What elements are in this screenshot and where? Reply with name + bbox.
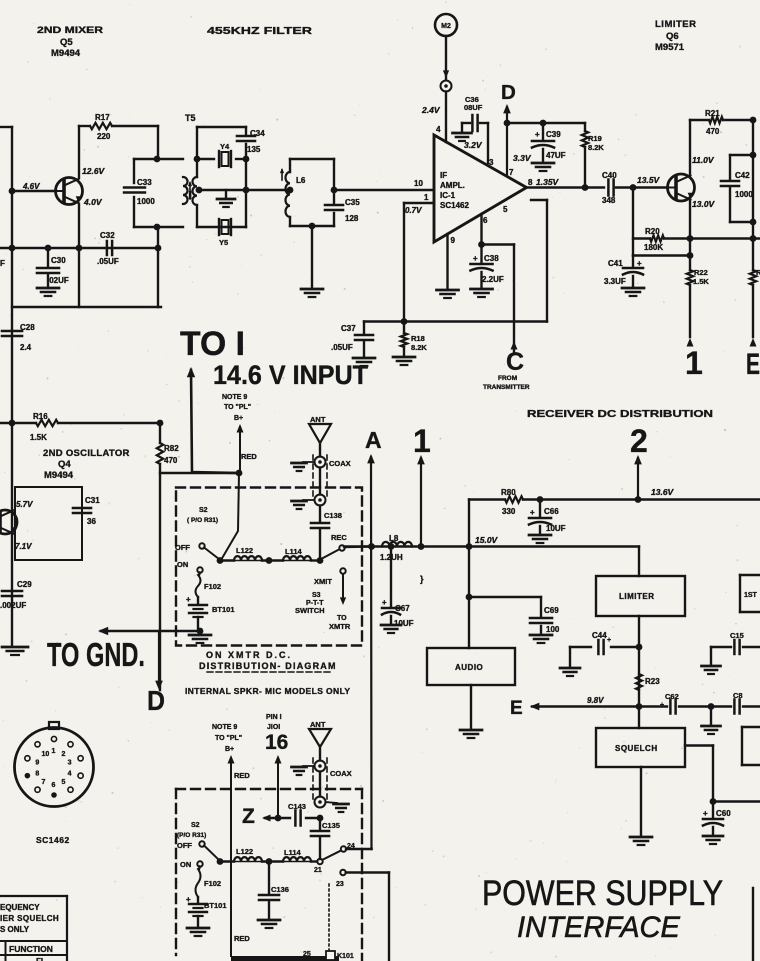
svg-text:ON: ON xyxy=(177,560,188,569)
table row S ONLY xyxy=(0,925,30,934)
svg-text:L8: L8 xyxy=(389,534,399,543)
svg-text:+: + xyxy=(607,637,611,644)
svg-text:F102: F102 xyxy=(204,879,221,888)
meter M2 xyxy=(435,14,457,36)
switch S2-2 ON contact xyxy=(197,861,202,866)
node R18 top xyxy=(401,318,408,325)
wire L114 to 21 xyxy=(311,860,317,862)
svg-text:AMPL.: AMPL. xyxy=(440,181,465,190)
svg-text:C8: C8 xyxy=(733,691,743,700)
ground filter mid xyxy=(217,190,235,207)
node R16 x12 xyxy=(9,420,16,427)
switch S3 xyxy=(340,568,346,605)
inductor L6 coil xyxy=(286,172,306,217)
wire x469 down xyxy=(468,500,470,649)
svg-text:L122: L122 xyxy=(236,847,253,856)
svg-text:R23: R23 xyxy=(645,677,660,686)
svg-text:ANT: ANT xyxy=(310,415,326,424)
svg-text:C135: C135 xyxy=(322,821,340,830)
jack circle xyxy=(441,81,452,92)
wire y321 bottom xyxy=(364,320,547,322)
svg-text:T5: T5 xyxy=(185,113,196,123)
svg-text:C69: C69 xyxy=(544,606,559,615)
svg-text:JIOI: JIOI xyxy=(267,724,280,731)
pin 10 xyxy=(414,179,423,188)
svg-text:2: 2 xyxy=(61,751,65,758)
audio box xyxy=(427,648,515,685)
resistor R82 xyxy=(157,443,179,465)
label NOTE 9 2 xyxy=(212,724,242,753)
svg-text:RECEIVER DC DISTRIBUTION: RECEIVER DC DISTRIBUTION xyxy=(527,408,713,420)
svg-text:13.5V: 13.5V xyxy=(637,175,661,185)
inductor L114 2 xyxy=(262,848,311,862)
node y190 left xyxy=(196,187,203,194)
label 9.8V xyxy=(587,696,604,705)
inductor L8 xyxy=(380,534,412,562)
node emitter C41 xyxy=(687,252,694,259)
arrow C up xyxy=(511,341,518,350)
node ant bottom 1 xyxy=(317,557,324,564)
ground BT101 2 xyxy=(187,928,209,936)
capacitor C30 xyxy=(37,248,69,296)
pin 4 xyxy=(436,125,441,134)
label S2 1 xyxy=(187,507,218,524)
label 3.2V xyxy=(464,140,483,150)
node C44 xyxy=(636,644,643,651)
capacitor C143 xyxy=(288,802,306,826)
svg-text:Z: Z xyxy=(242,805,255,828)
dashed box 2 xyxy=(176,789,362,961)
pin 1 xyxy=(424,193,429,202)
wire left-edge input y127 xyxy=(0,126,12,128)
inductor L122 1 xyxy=(234,546,262,561)
capacitor C15 xyxy=(730,631,744,654)
resistor R80 labels xyxy=(501,488,516,516)
inductor L122 2 xyxy=(234,847,262,862)
wire R80 row xyxy=(469,496,760,502)
node y248 x12 xyxy=(9,245,16,252)
label 0.7V xyxy=(405,206,422,215)
squiggle mark xyxy=(420,574,424,584)
table row CARRIER SQUELCH xyxy=(0,914,59,923)
fuse F102 1 xyxy=(196,573,222,598)
wire y123 to R19 xyxy=(507,122,585,124)
label S3 P-T-T SWITCH xyxy=(295,592,325,615)
wire right bus x753 xyxy=(752,120,754,270)
svg-text:9.8V: 9.8V xyxy=(587,696,604,705)
svg-text:SC1462: SC1462 xyxy=(36,835,70,845)
svg-text:S2: S2 xyxy=(191,822,200,829)
svg-text:BT101: BT101 xyxy=(204,901,227,910)
node pin16 z xyxy=(275,815,282,822)
wire y190 row xyxy=(197,189,246,191)
feedback box right xyxy=(546,200,548,322)
relay K101 contact square xyxy=(326,951,335,960)
capacitor C135 xyxy=(311,818,340,859)
handwriting TO GND. xyxy=(47,636,145,673)
label K101 xyxy=(337,953,354,960)
label ON XMTR DC xyxy=(199,650,337,672)
node wiper 2 xyxy=(217,858,224,865)
wire C44 row xyxy=(570,646,639,648)
wire switch row 2 xyxy=(220,860,234,862)
svg-text:S3: S3 xyxy=(312,592,321,599)
dashed box 1 xyxy=(176,488,362,646)
label 3.3V xyxy=(513,153,532,163)
wire to REC xyxy=(311,559,320,561)
label COAX 1 xyxy=(329,459,351,468)
table row FREQUENCY xyxy=(0,903,40,912)
svg-text:FROM: FROM xyxy=(498,375,517,382)
capacitor C62 xyxy=(660,692,679,714)
svg-text:( P/O R31): ( P/O R31) xyxy=(187,517,218,524)
capacitor C28 xyxy=(2,323,35,352)
svg-text:5: 5 xyxy=(61,779,65,786)
svg-text:C: C xyxy=(506,348,524,376)
capacitor C40 xyxy=(602,171,617,205)
op-amp U1 IF AMPL IC-1 SC1462 triangle xyxy=(434,135,527,242)
table divider 2 xyxy=(0,954,67,956)
label SC1462 xyxy=(36,835,70,845)
svg-text:C138: C138 xyxy=(324,511,342,520)
oscillator box xyxy=(15,487,82,560)
svg-text:2ND OSCILLATOR: 2ND OSCILLATOR xyxy=(43,448,130,459)
node y499 x638 xyxy=(635,496,642,503)
svg-text:Q6: Q6 xyxy=(666,31,679,42)
handwriting 1 dc xyxy=(413,423,431,459)
wire C69 row xyxy=(469,596,541,598)
label INTERNAL SPKR-MIC xyxy=(185,686,350,696)
svg-text:+: + xyxy=(637,259,642,268)
arrow Z xyxy=(262,815,320,822)
svg-text:R82: R82 xyxy=(164,444,179,453)
svg-text:C62: C62 xyxy=(665,692,679,701)
label RED 1 xyxy=(241,452,257,461)
capacitor C138 xyxy=(311,506,342,561)
node L6 in xyxy=(287,187,294,194)
ground squelch xyxy=(630,837,652,845)
svg-text:ON: ON xyxy=(180,860,191,869)
wire y473 branch xyxy=(160,472,239,474)
svg-text:DISTRIBUTION- DIAGRAM: DISTRIBUTION- DIAGRAM xyxy=(199,661,337,671)
contact 21 xyxy=(314,859,323,874)
svg-text:B+: B+ xyxy=(234,415,243,422)
wire C40 to Q6 xyxy=(616,186,668,188)
handwriting 16 xyxy=(265,731,288,754)
svg-text:1000: 1000 xyxy=(137,197,155,206)
wire x79 y248-307 xyxy=(78,248,80,307)
svg-text:IC-1: IC-1 xyxy=(440,191,456,200)
svg-text:C31: C31 xyxy=(85,496,100,505)
label 25 xyxy=(303,951,311,958)
node pin6 xyxy=(478,241,485,248)
svg-text:Y4: Y4 xyxy=(220,142,230,151)
svg-text:+: + xyxy=(660,702,664,709)
node filter y159 left xyxy=(194,156,201,163)
node y190 right xyxy=(243,187,250,194)
svg-text:XMIT: XMIT xyxy=(314,577,332,586)
arrowhead M2 wire xyxy=(443,70,449,78)
wire y248 bus xyxy=(0,247,158,249)
svg-text:TO "PL": TO "PL" xyxy=(215,735,242,742)
switch S2-2 OFF contact xyxy=(199,841,219,860)
wire C terminal xyxy=(513,245,515,353)
svg-text:SWITCH: SWITCH xyxy=(295,606,325,615)
arrow B+ 2 xyxy=(228,755,235,956)
svg-text:1: 1 xyxy=(413,423,431,459)
svg-text:+: + xyxy=(473,254,478,263)
svg-text:INTERNAL SPKR- MIC MODELS O: INTERNAL SPKR- MIC MODELS ONLY xyxy=(185,686,350,696)
svg-text:INTERFACE: INTERFACE xyxy=(517,911,681,944)
ground E node xyxy=(702,707,721,735)
capacitor C31 xyxy=(73,496,100,526)
wire 15V row xyxy=(344,545,639,547)
capacitor C66 xyxy=(529,496,566,543)
svg-text:15.0V: 15.0V xyxy=(475,535,499,545)
svg-text:C15: C15 xyxy=(730,631,744,640)
svg-text:4: 4 xyxy=(436,125,441,134)
svg-text:.05UF: .05UF xyxy=(97,257,119,266)
svg-text:R19: R19 xyxy=(588,134,602,143)
svg-text:135: 135 xyxy=(247,145,261,154)
arrow TO I xyxy=(187,367,239,473)
svg-text:7: 7 xyxy=(42,779,46,786)
svg-text:LIMITER: LIMITER xyxy=(619,592,655,601)
wire R17 corner down xyxy=(157,126,159,159)
svg-text:C42: C42 xyxy=(735,171,750,180)
wire pin5 row xyxy=(482,243,515,245)
wire x159 R16 to R82 xyxy=(159,423,161,443)
svg-text:0.7V: 0.7V xyxy=(405,206,422,215)
svg-text:9: 9 xyxy=(451,236,456,245)
node x753 y238 xyxy=(750,235,757,242)
svg-text:2.4: 2.4 xyxy=(20,343,32,352)
handwriting 1 limiter xyxy=(685,345,703,381)
handwriting 2 xyxy=(630,423,648,459)
label 2ND MIXER Q5 M9494 xyxy=(37,25,103,59)
wire right edge bottom xyxy=(752,888,754,961)
arrow pin16 xyxy=(275,755,282,818)
svg-text:10UF: 10UF xyxy=(546,524,566,533)
svg-text:F102: F102 xyxy=(204,582,221,591)
svg-text:4.6V: 4.6V xyxy=(22,182,40,191)
label ON 2 xyxy=(180,860,191,869)
label 12.6V xyxy=(82,166,106,176)
filter box T5 xyxy=(197,127,246,227)
svg-text:4: 4 xyxy=(68,770,72,777)
wire squelch right xyxy=(685,746,713,802)
svg-text:6: 6 xyxy=(52,782,56,789)
wire pin3 up xyxy=(487,123,489,163)
resistor R20 labels xyxy=(644,227,663,252)
svg-text:SC1462: SC1462 xyxy=(440,201,469,210)
handwriting D top xyxy=(501,81,516,104)
svg-text:L6: L6 xyxy=(296,176,306,185)
svg-text:L114: L114 xyxy=(285,547,303,556)
label 11.0V xyxy=(692,155,715,165)
node L6 out xyxy=(331,187,338,194)
svg-text:1: 1 xyxy=(685,345,703,381)
svg-text:47UF: 47UF xyxy=(546,151,566,160)
ground coax 2a xyxy=(292,766,315,775)
ground left bus bottom xyxy=(2,647,28,655)
svg-text:R80: R80 xyxy=(501,488,516,497)
svg-text:E: E xyxy=(746,348,760,381)
svg-text:M9494: M9494 xyxy=(51,48,81,59)
wire M2 down xyxy=(445,36,447,80)
svg-text:10: 10 xyxy=(414,179,423,188)
label COAX 2 xyxy=(330,769,352,778)
svg-text:8: 8 xyxy=(528,178,533,187)
svg-text:M9494: M9494 xyxy=(44,470,74,481)
svg-text:RED: RED xyxy=(234,771,250,780)
label fragment UF left edge xyxy=(0,259,5,268)
node C60 xyxy=(710,798,717,805)
battery BT101 1 xyxy=(186,595,235,630)
svg-text:10UF: 10UF xyxy=(394,619,414,628)
svg-text:RED: RED xyxy=(241,452,257,461)
svg-text:R17: R17 xyxy=(95,113,110,122)
ground BT101 1 xyxy=(189,631,211,643)
label RED 2b xyxy=(234,934,250,943)
arrow terminal E xyxy=(750,338,757,347)
node battery ground 1 xyxy=(197,628,204,635)
svg-text:OFF: OFF xyxy=(177,841,192,850)
svg-text:2.4V: 2.4V xyxy=(421,105,441,115)
node y248 x79 xyxy=(76,245,83,252)
transistor Q5 xyxy=(56,178,83,205)
resistor R22 xyxy=(687,268,710,337)
node z ant xyxy=(317,815,324,822)
coax jack 2a xyxy=(315,761,326,772)
svg-text:COAX: COAX xyxy=(330,769,352,778)
wire Y4 row xyxy=(197,158,246,160)
pin 6 xyxy=(483,216,488,225)
node R16 x161 xyxy=(157,420,164,427)
svg-text:C34: C34 xyxy=(250,129,265,138)
label 5.7V xyxy=(16,500,33,509)
svg-text:B+: B+ xyxy=(225,746,234,753)
antenna ANT 1 xyxy=(309,415,331,457)
svg-text:2: 2 xyxy=(630,423,648,459)
capacitor C42 box xyxy=(730,155,753,222)
svg-text:TO GND.: TO GND. xyxy=(47,636,145,673)
switch S2-1 ON contact xyxy=(197,567,202,572)
node R21 right xyxy=(750,117,757,124)
box 0.7V left xyxy=(404,203,434,322)
svg-text:+: + xyxy=(186,895,191,904)
node filter y159 right xyxy=(243,156,250,163)
label LIMITER Q6 M9571 xyxy=(655,19,697,53)
wire C15 row xyxy=(711,646,760,648)
svg-text:A: A xyxy=(365,427,382,453)
pin 7 xyxy=(509,168,514,177)
svg-text:11.0V: 11.0V xyxy=(692,155,715,165)
svg-text:1.5K: 1.5K xyxy=(30,433,47,442)
node D y123 xyxy=(504,120,511,127)
resistor R19 xyxy=(582,123,605,187)
ground coax 1b xyxy=(292,500,315,509)
svg-text:3.3UF: 3.3UF xyxy=(604,277,626,286)
contact 24 xyxy=(341,843,355,852)
node x158 y248 xyxy=(155,245,162,252)
svg-text:F: F xyxy=(0,259,5,268)
wire 15V corner down xyxy=(638,547,640,577)
wire REC to A xyxy=(345,545,372,548)
arrow 2 xyxy=(634,455,642,500)
svg-text:13.0V: 13.0V xyxy=(692,199,716,209)
wire L6 to IC xyxy=(334,189,434,191)
switch 21-24 blade xyxy=(323,851,340,860)
svg-text:C41: C41 xyxy=(608,259,623,268)
svg-text:3: 3 xyxy=(489,158,494,167)
label 2.4V xyxy=(421,105,441,115)
handwriting POWER SUPPLY xyxy=(482,874,723,913)
resistor R23 xyxy=(636,674,660,690)
handwriting D xyxy=(147,685,165,716)
svg-text:1: 1 xyxy=(52,748,56,755)
partial box 1ST xyxy=(740,575,760,612)
svg-text:NOTE 9: NOTE 9 xyxy=(212,724,237,731)
capacitor C36 xyxy=(462,95,488,131)
svg-text:3: 3 xyxy=(68,760,72,767)
label OFF 1 xyxy=(175,543,190,552)
node x753 y222 xyxy=(750,219,757,226)
svg-text:C35: C35 xyxy=(345,198,360,207)
label 13.0V xyxy=(692,199,716,209)
svg-text:K101: K101 xyxy=(337,953,354,960)
svg-text:+: + xyxy=(530,508,535,517)
ground coax 2b xyxy=(326,802,349,812)
svg-text:+: + xyxy=(382,598,387,607)
node x469 15V xyxy=(466,543,473,550)
svg-text:14.6 V INPUT: 14.6 V INPUT xyxy=(213,360,368,390)
svg-text:8.2K: 8.2K xyxy=(588,143,604,152)
coax shield dashes 1 xyxy=(313,455,327,500)
capacitor C69 xyxy=(530,597,560,643)
handwriting E limiter xyxy=(746,348,760,381)
crystal Y5 xyxy=(219,219,231,247)
capacitor C34 xyxy=(237,129,265,154)
coax jack 1a xyxy=(315,457,326,468)
svg-text:+: + xyxy=(535,130,540,139)
ground R18 xyxy=(393,357,415,365)
svg-text:C29: C29 xyxy=(17,580,32,589)
resistor R21 xyxy=(690,109,753,136)
arrow A xyxy=(367,454,375,849)
capacitor C67 xyxy=(381,543,414,633)
L6 tuning arrow xyxy=(280,168,284,180)
inductor L114 1 xyxy=(262,547,311,561)
svg-text:E: E xyxy=(510,698,523,719)
svg-text:L122: L122 xyxy=(236,546,253,555)
label FROM xyxy=(483,375,530,391)
svg-text:BT101: BT101 xyxy=(212,605,235,614)
node emitter R20 xyxy=(687,235,694,242)
capacitor C32 xyxy=(97,231,119,266)
node RED junction xyxy=(236,470,243,477)
wire coax mid 2 xyxy=(319,772,321,797)
svg-text:9: 9 xyxy=(35,760,39,767)
ground L6 xyxy=(301,289,323,297)
svg-text:.05UF: .05UF xyxy=(331,343,353,352)
svg-text:C143: C143 xyxy=(288,802,306,811)
capacitor C44 xyxy=(592,631,611,654)
svg-text:C39: C39 xyxy=(546,130,561,139)
node 1 x421 xyxy=(418,543,425,550)
label IF AMPL IC-1 SC1462 xyxy=(440,171,469,210)
svg-text:+: + xyxy=(703,809,708,818)
